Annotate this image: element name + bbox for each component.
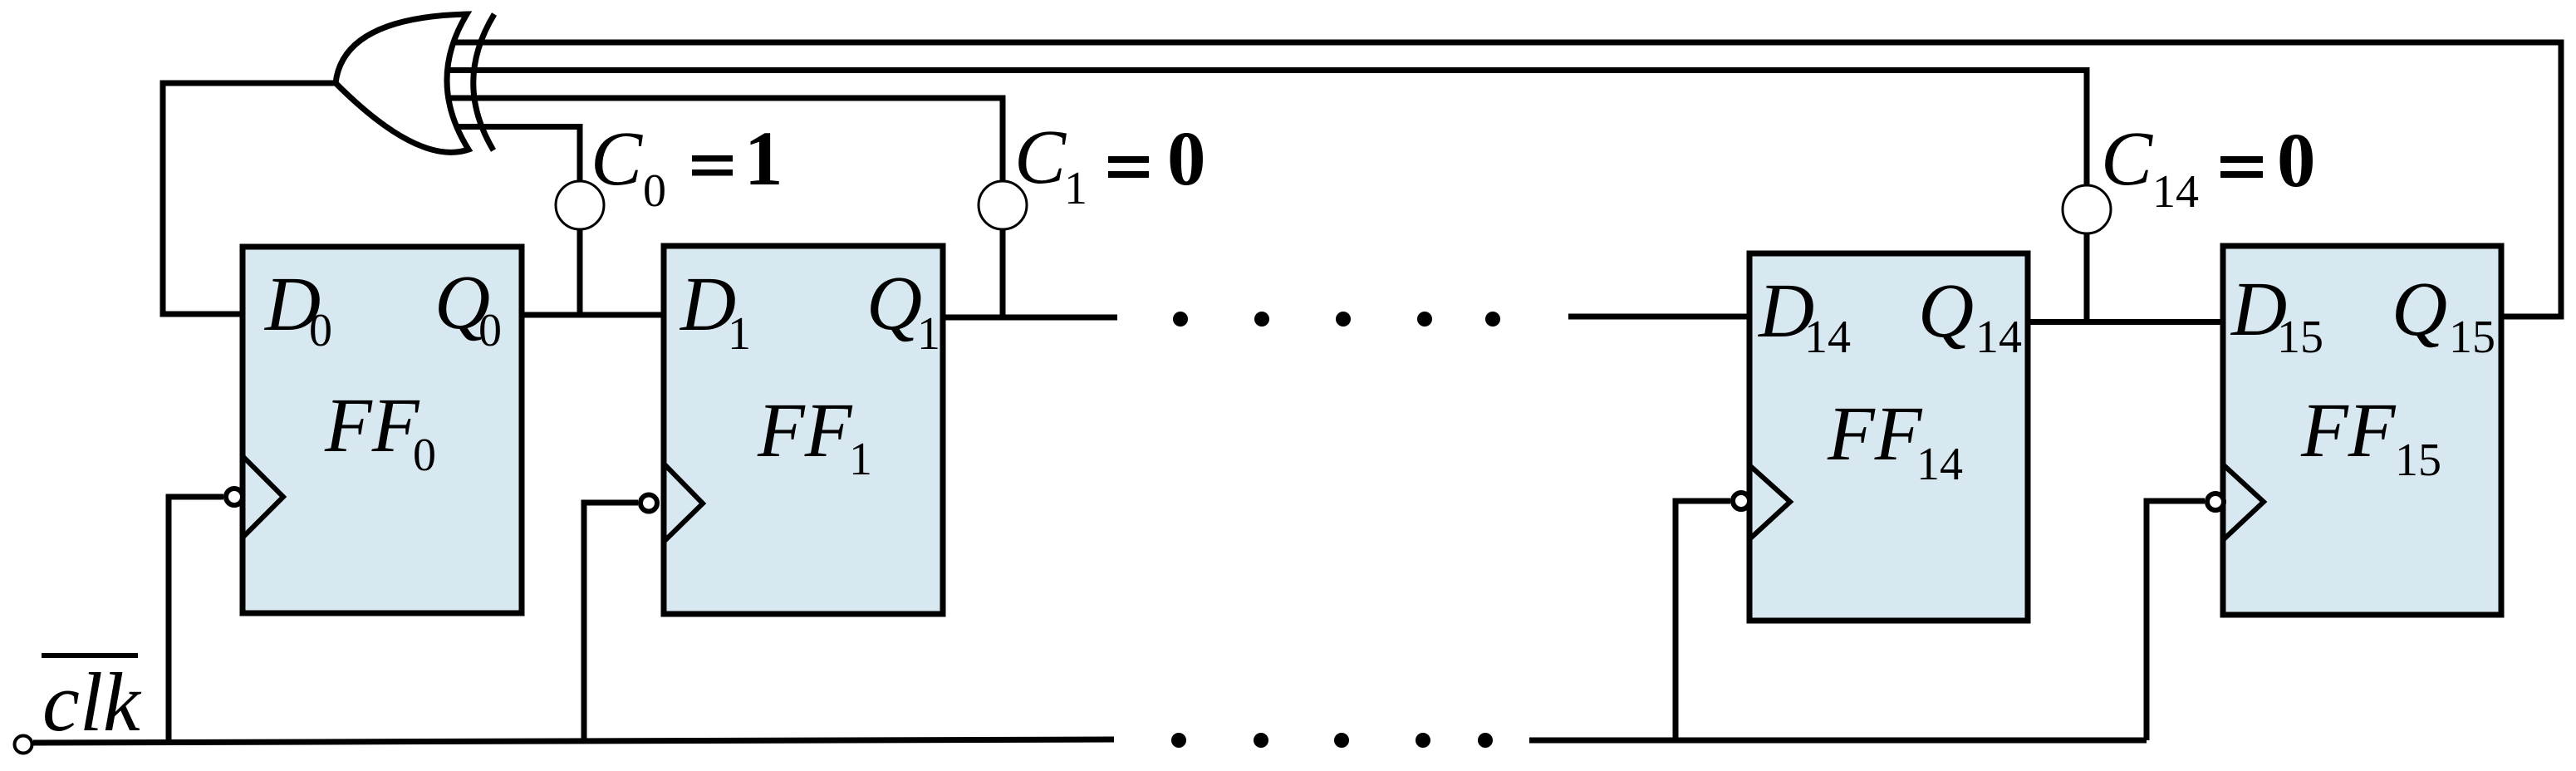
svg-text:1: 1 bbox=[917, 308, 940, 360]
clock edge triangle FF1 bbox=[664, 464, 703, 542]
wire clk riser to FF14 bbox=[1676, 501, 1730, 740]
svg-text:C: C bbox=[1014, 115, 1067, 200]
clock edge triangle FF14 bbox=[1749, 465, 1790, 539]
svg-text:Q: Q bbox=[2392, 267, 2447, 352]
svg-text:14: 14 bbox=[1916, 439, 1963, 490]
clock bubble FF15 bbox=[2207, 494, 2224, 510]
wire Q0 to D1 bbox=[522, 312, 664, 318]
wire clk riser to FF15 bbox=[2147, 501, 2205, 740]
svg-text:1: 1 bbox=[849, 434, 872, 485]
wire XOR input 3 from tap C1 bbox=[444, 98, 1003, 317]
svg-text:14: 14 bbox=[1975, 312, 2022, 363]
clock bubble FF14 bbox=[1733, 493, 1749, 509]
svg-text:0: 0 bbox=[2277, 118, 2316, 204]
wire XOR input 4 from tap C0 bbox=[449, 127, 580, 316]
svg-text:15: 15 bbox=[2395, 435, 2441, 486]
clock bubble FF1 bbox=[640, 495, 657, 512]
svg-text:Q: Q bbox=[1918, 268, 1974, 354]
wire ellipsis to D14 bbox=[1568, 314, 1749, 320]
svg-text:FF: FF bbox=[324, 383, 420, 469]
wire XOR input 2 from tap C14 bbox=[445, 71, 2087, 323]
svg-text:14: 14 bbox=[1804, 312, 1851, 363]
svg-text:15: 15 bbox=[2277, 312, 2323, 363]
tap circle C0 bbox=[556, 181, 604, 229]
wire XOR input 1 from Q15 feedback bbox=[455, 42, 2561, 317]
clock edge triangle FF15 bbox=[2224, 465, 2264, 539]
wire clk bus right segment bbox=[1529, 738, 2147, 744]
svg-text:C: C bbox=[591, 116, 643, 202]
clock edge triangle FF0 bbox=[243, 456, 283, 538]
ellipsis dots clk bus bbox=[1171, 733, 1493, 748]
svg-text:FF: FF bbox=[757, 388, 853, 474]
xor gate U1 second input arc bbox=[473, 14, 494, 150]
svg-text:15: 15 bbox=[2449, 312, 2495, 363]
flip-flop FF14 box bbox=[1749, 253, 2028, 621]
svg-text:0: 0 bbox=[413, 430, 436, 481]
clk overline bbox=[42, 653, 138, 658]
flip-flop FF15 box bbox=[2223, 246, 2501, 615]
wire Q1 to ellipsis bbox=[943, 315, 1117, 321]
tap circle C14 bbox=[2063, 185, 2111, 233]
svg-text:0: 0 bbox=[478, 305, 502, 356]
wire Q14 to D15 bbox=[2028, 319, 2223, 325]
wire clk riser to FF1 bbox=[584, 503, 638, 739]
svg-text:1: 1 bbox=[728, 308, 751, 360]
svg-text:C: C bbox=[2101, 116, 2153, 202]
wire feedback from XOR output to D0 bbox=[163, 83, 336, 314]
ellipsis dots data chain bbox=[1173, 312, 1500, 327]
flip-flop FF1 box bbox=[664, 246, 943, 614]
wire clk bus left segment bbox=[33, 739, 1114, 743]
tap circle C1 bbox=[979, 181, 1027, 229]
clk input terminal circle bbox=[15, 736, 32, 754]
svg-text:0: 0 bbox=[1167, 116, 1206, 202]
svg-text:0: 0 bbox=[643, 165, 666, 217]
svg-text:FF: FF bbox=[1827, 391, 1923, 477]
svg-text:FF: FF bbox=[2300, 388, 2397, 474]
svg-text:clk: clk bbox=[42, 656, 142, 749]
svg-text:Q: Q bbox=[866, 261, 922, 346]
xor gate U1 body bbox=[336, 14, 469, 152]
svg-text:14: 14 bbox=[2152, 166, 2199, 218]
svg-text:1: 1 bbox=[744, 116, 783, 202]
wire clk riser to FF0 bbox=[169, 497, 223, 740]
flip-flop FF0 box bbox=[243, 247, 522, 613]
svg-text:1: 1 bbox=[1064, 163, 1087, 214]
clock bubble FF0 bbox=[226, 489, 243, 505]
svg-text:0: 0 bbox=[309, 305, 332, 356]
